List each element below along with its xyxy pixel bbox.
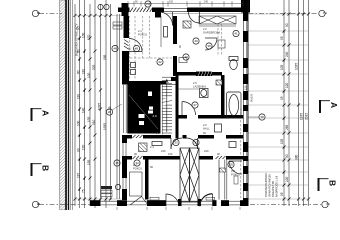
svg-text:525: 525: [92, 64, 96, 70]
svg-text:P2: P2: [146, 2, 150, 6]
stair right wall: [176, 75, 179, 139]
corridor top wall: [122, 135, 244, 139]
kitchen appliance 1: [131, 63, 136, 68]
bedroom divider wall: [145, 160, 149, 200]
terrace door arc right: [166, 194, 213, 207]
hall side table: [215, 124, 222, 132]
section marker B left: [32, 163, 42, 176]
bottom right room divider line: [218, 160, 220, 200]
corridor top wall jamb hatch: [133, 135, 143, 138]
svg-text:PARAPET 85: PARAPET 85: [271, 180, 275, 197]
tick dots right: [283, 31, 284, 173]
section marker A left: [32, 108, 42, 121]
kitchen wall above stairwell: [122, 81, 166, 85]
cistern shelf: [218, 40, 225, 48]
radiator bottom mid room: [206, 197, 215, 200]
kitchen counter dashed line: [130, 57, 172, 59]
svg-text:2.9: 2.9: [153, 114, 158, 118]
svg-text:115: 115: [77, 173, 81, 178]
tick marks right dimension lines: [283, 13, 311, 201]
svg-text:155: 155: [87, 159, 91, 165]
right exterior wall inner face: [242, 12, 244, 199]
left wall window lines: [123, 143, 126, 189]
radiator upper right room: [229, 142, 236, 148]
hatched shaft square 1: [183, 21, 191, 28]
room label bath: [193, 81, 206, 88]
svg-text:150: 150: [244, 85, 248, 90]
door leaf bottom right hall: [200, 194, 213, 206]
top wall window lines: [164, 8, 187, 11]
svg-text:46: 46: [113, 47, 117, 51]
svg-text:1035: 1035: [295, 63, 299, 70]
svg-text:2.1: 2.1: [138, 29, 142, 33]
grid line 6 dash-dot bottom right: [250, 204, 321, 206]
svg-text:POKOJ: POKOJ: [133, 166, 143, 170]
svg-text:2.7: 2.7: [133, 163, 137, 167]
svg-text:37: 37: [193, 103, 197, 107]
staircase arrow: [165, 80, 168, 133]
svg-text:GARDEROBA: GARDEROBA: [203, 30, 220, 34]
in-wall hatched duct: [196, 72, 212, 77]
svg-text:105: 105: [280, 64, 284, 70]
wardrobe with cross: [199, 16, 236, 26]
staircase treads: [162, 77, 172, 133]
svg-text:POKOJ: POKOJ: [138, 32, 148, 36]
svg-text:32: 32: [194, 141, 198, 145]
svg-text:265: 265: [285, 124, 289, 130]
dashed hidden lines upper left room: [130, 16, 222, 80]
glazing bottom jamb left: [178, 199, 182, 206]
kitchen appliance 2: [131, 70, 136, 75]
section marker B right: [319, 178, 329, 191]
stair break line: [162, 98, 172, 106]
svg-text:110: 110: [77, 94, 81, 99]
white leader line across void: [129, 95, 158, 129]
bathroom bottom wall: [177, 115, 244, 119]
small in-plan dimension texts: [128, 45, 248, 156]
white fixtures inside void: [139, 92, 154, 126]
rotated dimension numbers left side: [77, 26, 112, 193]
right extension lines: [249, 14, 310, 199]
svg-text:POKOJ: POKOJ: [231, 172, 241, 176]
leader line marker 20: [112, 104, 122, 110]
bathroom left wall: [221, 75, 225, 119]
svg-text:2.4: 2.4: [150, 145, 154, 149]
glazed stair window right panel: [190, 148, 200, 202]
svg-text:B: B: [328, 180, 338, 186]
room label bed right: [231, 169, 241, 176]
svg-text:240: 240: [204, 149, 209, 153]
svg-text:980: 980: [295, 154, 299, 160]
svg-text:NADPROZE L-19: NADPROZE L-19: [275, 175, 279, 197]
svg-text:LAZIENKA: LAZIENKA: [193, 84, 206, 88]
svg-text:90: 90: [77, 148, 81, 152]
grid bubble 6 left: [32, 201, 38, 207]
svg-text:185: 185: [103, 54, 107, 60]
leader line marker 38: [248, 116, 259, 118]
svg-text:80: 80: [77, 49, 81, 53]
svg-text:120: 120: [82, 144, 86, 150]
door arc bottom right room: [229, 161, 242, 174]
svg-text:240: 240: [204, 1, 209, 4]
left extension line top: [75, 15, 122, 17]
left extension line bottom: [75, 198, 122, 200]
hatched shaft square 3: [216, 80, 222, 85]
stairwell black void: [127, 85, 160, 134]
svg-text:130: 130: [82, 32, 86, 38]
svg-text:240: 240: [285, 51, 289, 57]
rotated dimension numbers right side: [280, 23, 309, 196]
door arc bathroom: [182, 102, 196, 116]
closet bottom left room: [130, 172, 143, 196]
svg-text:38: 38: [260, 115, 264, 119]
svg-text:A: A: [329, 102, 339, 108]
grid bubble 6 right: [322, 201, 328, 207]
door arc left wall entry: [129, 39, 142, 52]
window lines beside void: [124, 85, 127, 133]
svg-text:510: 510: [92, 119, 96, 125]
terrace door arc left: [166, 194, 179, 206]
hatched shaft square 2: [139, 143, 148, 152]
grid line 2 dash-dot top left: [39, 13, 62, 15]
room label bed left: [133, 163, 143, 170]
upper room wardrobe edge line: [160, 16, 162, 47]
door leaf diagonal right: [142, 197, 149, 206]
small cabinet near duct: [179, 58, 187, 63]
svg-text:39: 39: [207, 44, 211, 48]
svg-text:120: 120: [285, 176, 289, 182]
washing machine: [200, 89, 209, 98]
room label hall: [203, 123, 210, 130]
svg-text:43: 43: [184, 55, 188, 59]
svg-text:45: 45: [135, 47, 139, 51]
right notes text block: [264, 173, 279, 197]
legend blocks lower left: [101, 186, 112, 197]
glazed stair window left panel: [180, 148, 190, 202]
svg-text:B: B: [41, 165, 51, 171]
svg-text:2.2: 2.2: [203, 27, 207, 31]
svg-text:2.5: 2.5: [193, 81, 197, 85]
duct white hatch: [198, 72, 212, 77]
svg-text:120: 120: [285, 82, 289, 88]
svg-text:170: 170: [87, 34, 91, 40]
svg-text:150: 150: [169, 1, 174, 4]
svg-text:100: 100: [168, 152, 173, 156]
left exterior wall: [122, 16, 129, 200]
existing building face lines: [71, 0, 73, 210]
svg-text:POZIOM PARTERU: POZIOM PARTERU: [264, 173, 268, 197]
top exterior wall: [118, 0, 250, 18]
svg-text:90: 90: [150, 165, 153, 169]
svg-text:240: 240: [161, 149, 166, 153]
right exterior wall outer face: [247, 0, 249, 206]
svg-text:110: 110: [82, 69, 86, 74]
room label upper mid: [203, 27, 220, 34]
svg-text:42: 42: [158, 60, 162, 64]
right wall window line: [246, 12, 248, 199]
svg-text:90: 90: [285, 154, 289, 158]
door arc corridor left: [171, 138, 182, 149]
door arc garderoba: [189, 12, 200, 23]
svg-text:2.6: 2.6: [203, 123, 207, 127]
radiator small left room: [152, 142, 162, 146]
svg-text:55: 55: [108, 106, 112, 110]
svg-text:19: 19: [229, 163, 233, 167]
bottom exterior wall: [90, 200, 249, 206]
small hatched box on divider: [220, 168, 226, 172]
right wall pier blocks: [243, 12, 249, 206]
door arc upper hall: [205, 38, 217, 50]
svg-text:140: 140: [82, 107, 86, 113]
grid line 6 dash-dot bottom left: [39, 204, 92, 206]
bathtub: [227, 92, 242, 118]
corridor bottom wall: [122, 156, 244, 160]
bathroom counter line: [178, 88, 199, 90]
bathroom top wall: [177, 72, 222, 76]
svg-text:OKNA PCV 90/150: OKNA PCV 90/150: [268, 174, 272, 197]
svg-text:90: 90: [77, 26, 81, 30]
svg-text:95: 95: [280, 192, 284, 196]
small cabinet upper room: [164, 27, 168, 38]
circled markers in plan: [98, 1, 265, 190]
radiator right room: [234, 176, 238, 184]
bottom right double line partition: [225, 160, 227, 200]
right wall dashed inner line: [240, 108, 242, 198]
svg-text:120: 120: [87, 72, 91, 78]
right dimension lines: [284, 0, 309, 206]
dimension row above top wall: [126, 1, 243, 7]
bottom wall window lines: [100, 201, 240, 205]
tick dots left: [79, 38, 85, 190]
upper partition vertical wall: [173, 16, 177, 76]
svg-text:135: 135: [87, 116, 91, 122]
svg-text:2015: 2015: [305, 113, 309, 120]
svg-text:35: 35: [115, 161, 119, 165]
grid bubble 2 right: [319, 10, 325, 16]
top wall inner finish line: [166, 13, 243, 15]
svg-text:75: 75: [82, 189, 86, 193]
legend blocks upper left: [113, 22, 122, 29]
svg-text:95: 95: [280, 36, 284, 40]
corridor label: [150, 145, 209, 169]
top wall door opening hatch: [130, 8, 152, 13]
toilet: [229, 57, 238, 70]
svg-text:95: 95: [280, 96, 284, 100]
corridor bottom wall jamb hatch: [133, 156, 226, 159]
left dimension lines: [75, 0, 120, 208]
room label upper left: [138, 29, 148, 36]
svg-text:105: 105: [280, 138, 284, 144]
door arc corridor right: [187, 138, 198, 149]
svg-text:41: 41: [234, 32, 238, 36]
left wall door opening hatch: [124, 40, 129, 50]
glazing bottom jamb right: [198, 199, 202, 206]
grid bubble 2 left: [32, 10, 38, 16]
bottom dimension marks below wall: [117, 207, 240, 210]
stair stringer line: [161, 84, 163, 135]
svg-text:HALL: HALL: [203, 126, 210, 130]
door leaf diagonal left: [130, 197, 142, 206]
svg-text:33: 33: [174, 141, 178, 145]
tick marks left dimension lines: [74, 14, 113, 201]
grid line 2 dash-dot top right: [249, 13, 319, 15]
svg-text:1935: 1935: [300, 113, 304, 120]
radiator bottom left room: [150, 197, 159, 200]
door arc top room: [159, 12, 173, 26]
svg-text:90: 90: [285, 23, 289, 27]
existing building hatched wall strip: [60, 0, 69, 210]
section marker A right: [320, 100, 330, 113]
svg-text:2.8: 2.8: [231, 169, 235, 173]
svg-text:100: 100: [77, 120, 81, 126]
svg-text:40: 40: [194, 39, 198, 43]
svg-text:A: A: [41, 110, 51, 116]
svg-text:1035: 1035: [98, 103, 102, 110]
svg-text:80: 80: [77, 70, 81, 74]
svg-text:90x150: 90x150: [251, 93, 254, 102]
svg-text:1935: 1935: [103, 123, 107, 130]
top wall dimension numbers: [135, 1, 209, 4]
